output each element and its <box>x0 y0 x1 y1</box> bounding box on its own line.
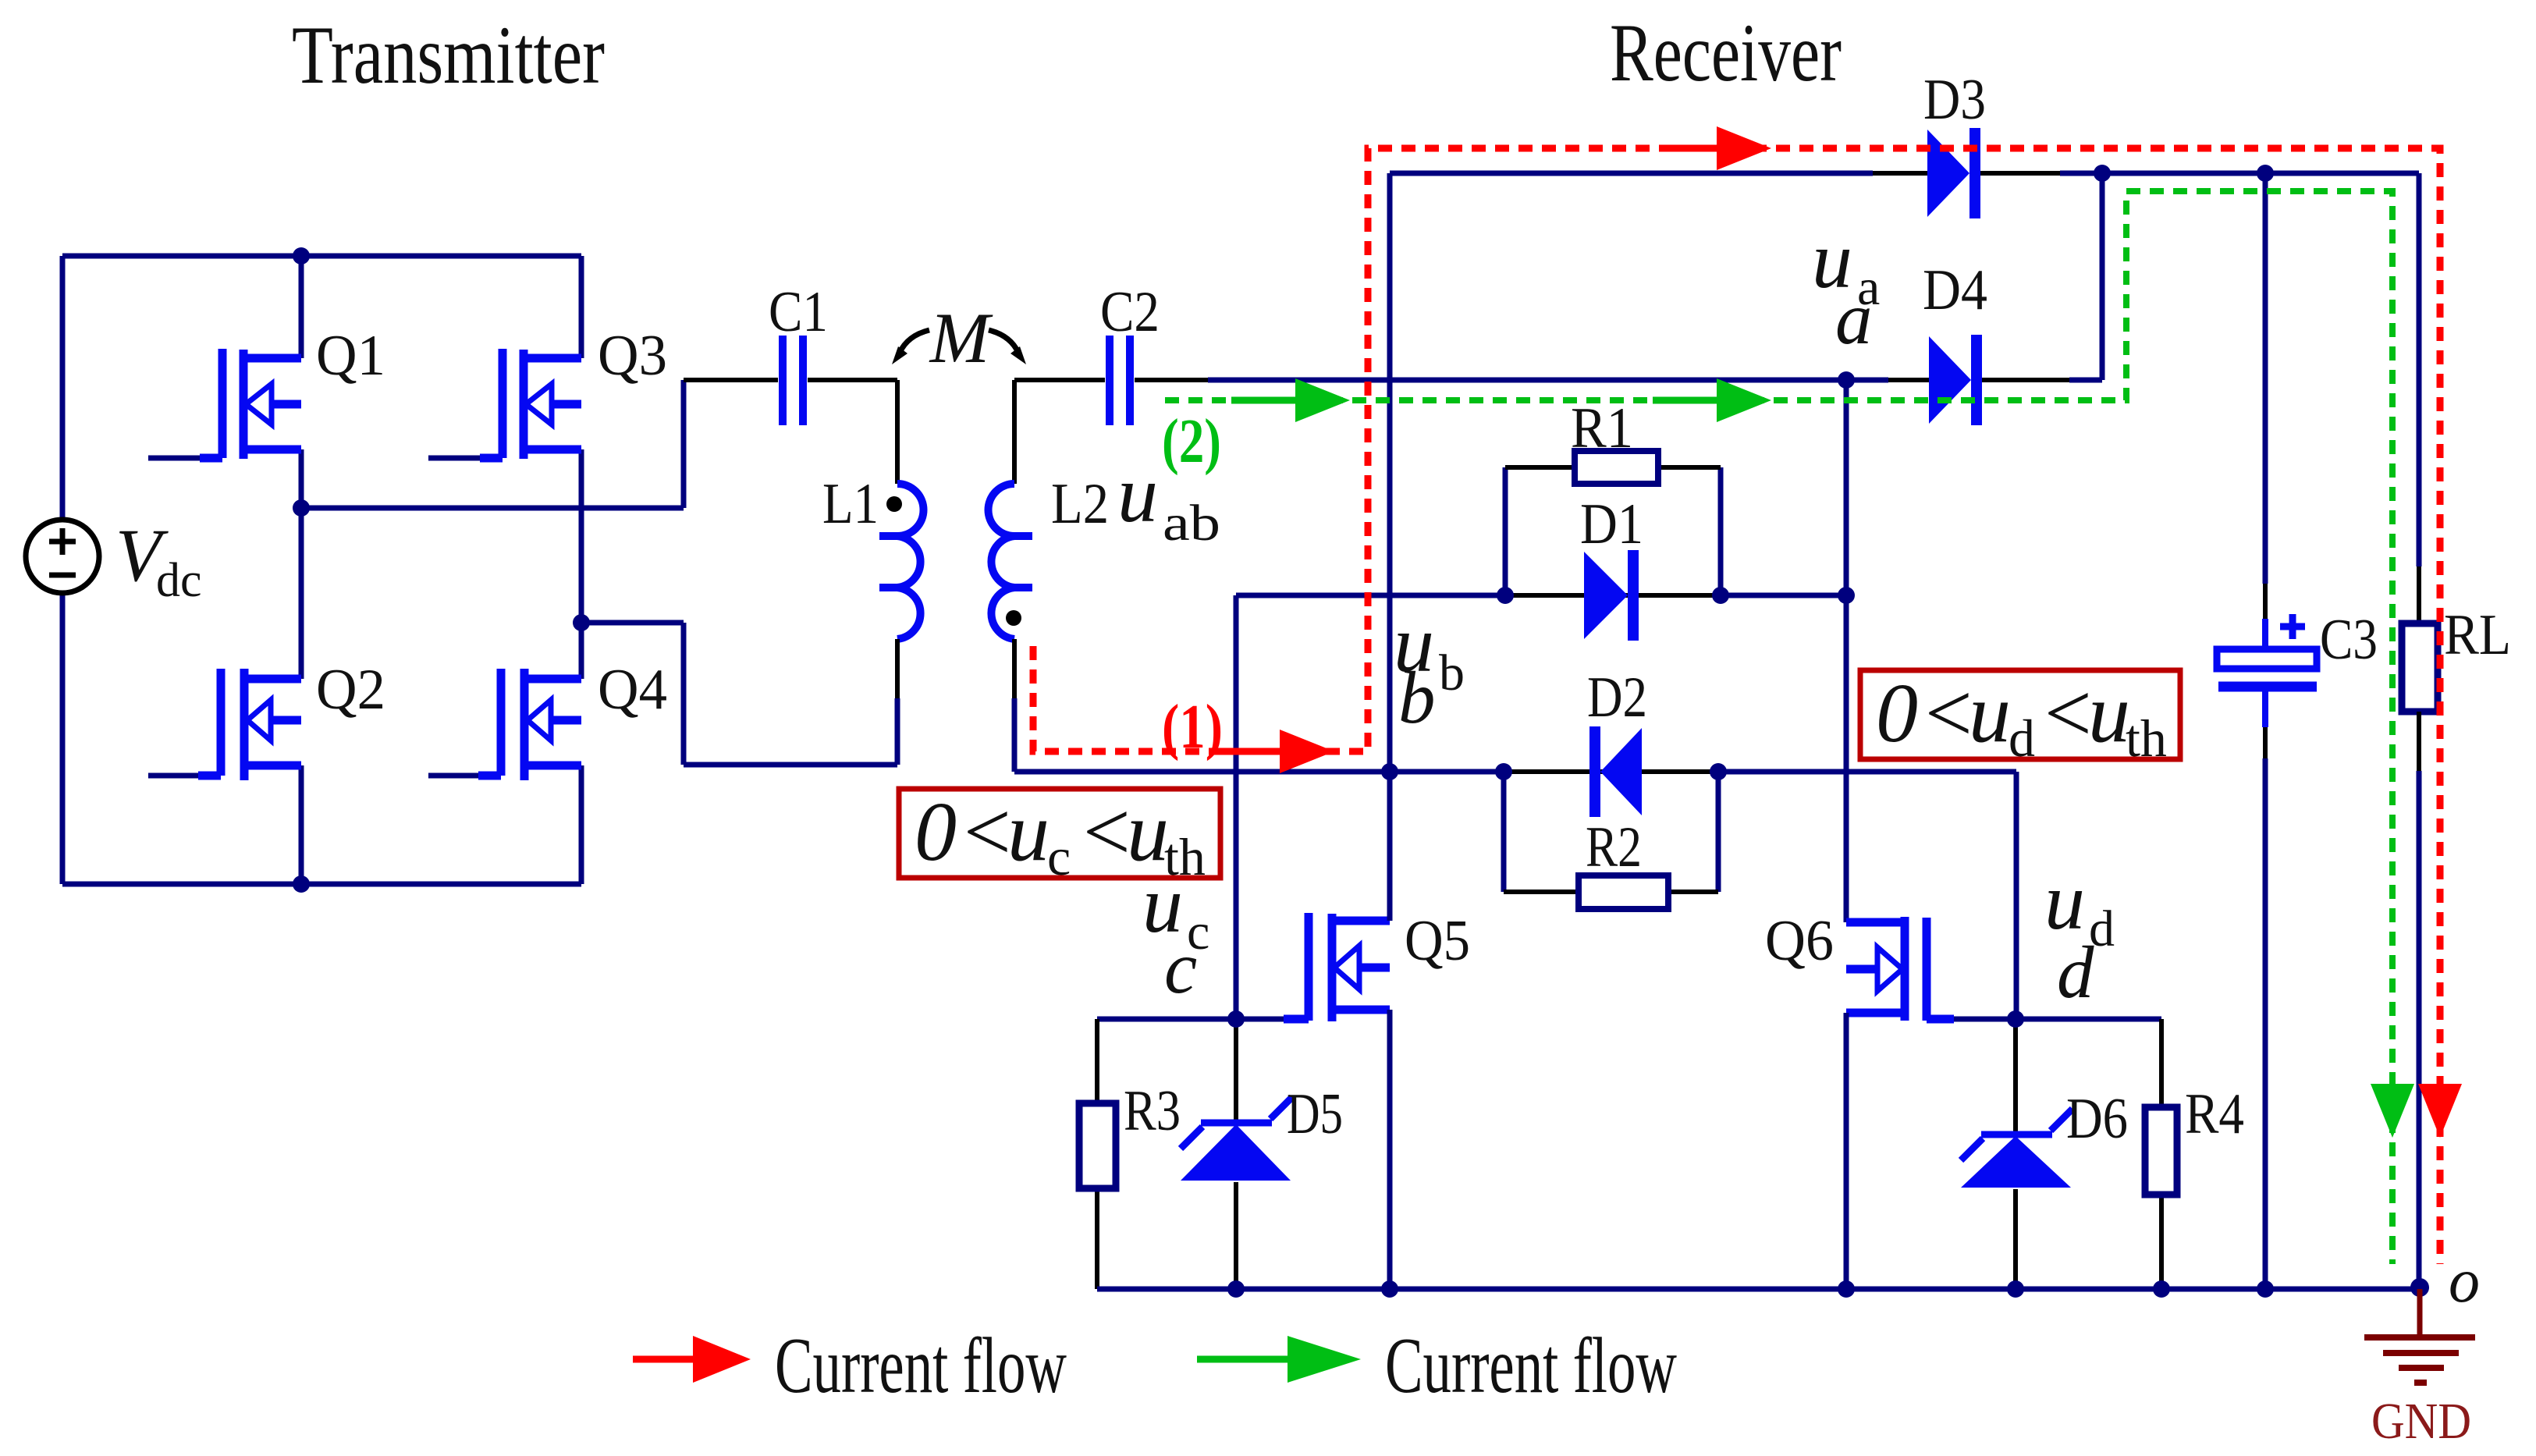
node: Q1-Q2 midpoint <box>293 499 310 517</box>
junction top line C3 branch <box>2257 165 2274 182</box>
red arrow on path 1 top <box>1660 145 1718 152</box>
svg-text:C1: C1 <box>769 280 828 344</box>
svg-text:D6: D6 <box>2066 1087 2128 1151</box>
svg-text:dc: dc <box>156 554 202 607</box>
red dashed current path 1 <box>1033 148 2440 1264</box>
resistor R2 <box>1579 875 1668 909</box>
node: top rail junction <box>293 247 310 265</box>
green arrow on path 2 down <box>2371 1084 2414 1138</box>
svg-text:L1: L1 <box>822 472 879 536</box>
svg-text:u: u <box>1117 449 1158 539</box>
wire: Q1-Q2 leg vertical <box>299 256 304 884</box>
condition box ud <box>1860 670 2180 759</box>
wire: receiver top line <box>1390 171 2419 176</box>
junction D2 right <box>1710 763 1727 780</box>
wire: R2 loop <box>1504 772 1718 892</box>
svg-text:D1: D1 <box>1580 492 1643 556</box>
svg-text:Q2: Q2 <box>316 658 385 722</box>
wire: L1 top lead <box>895 380 900 484</box>
wire: R1 loop <box>1505 467 1721 595</box>
svg-text:D4: D4 <box>1923 258 1987 322</box>
node a junction <box>1838 371 1855 389</box>
transistor Q6 <box>1846 917 1954 1021</box>
resistor RL <box>2402 623 2438 712</box>
svg-text:M: M <box>929 298 993 378</box>
transistor Q4 <box>478 669 581 780</box>
resistor R4 branch <box>2159 1019 2164 1289</box>
wire: b vertical (top line to node b) <box>1387 173 1393 772</box>
svg-text:Q5: Q5 <box>1405 909 1470 973</box>
wire: Q5 drain <box>1387 772 1393 921</box>
svg-text:Receiver: Receiver <box>1610 7 1842 98</box>
transistor Q1 <box>200 349 301 459</box>
svg-text:GND: GND <box>2371 1393 2471 1450</box>
node d junction <box>2007 1010 2024 1028</box>
wire: L2 to C2 <box>1014 378 1105 382</box>
svg-text:c: c <box>1164 926 1197 1009</box>
svg-text:RL: RL <box>2444 603 2511 667</box>
wire: C1 horizontal <box>684 378 897 382</box>
svg-text:D2: D2 <box>1587 666 1647 730</box>
svg-text:Transmitter: Transmitter <box>292 9 605 101</box>
wire: node a vertical <box>1844 380 1849 922</box>
junction rail Q6 source <box>1838 1280 1855 1298</box>
green dashed current path 2 <box>1165 191 2392 1264</box>
legend green arrow <box>1197 1356 1289 1363</box>
svg-text:0<u<u: 0<u<u <box>1876 667 2130 760</box>
wire: node d horizontal <box>1954 1017 2161 1022</box>
wire: D1 line (c to a) <box>1236 593 1846 598</box>
junction D2 left <box>1495 763 1512 780</box>
red arrow on path 1 down <box>2418 1084 2462 1138</box>
green arrow on path 2 first <box>1231 397 1297 404</box>
wire: RL vertical bottom <box>2417 712 2421 771</box>
junction rail R4 <box>2153 1280 2170 1298</box>
junction rail C3 <box>2257 1280 2274 1298</box>
junction rail D6 <box>2007 1280 2024 1298</box>
junction D1 line at node a vertical <box>1838 587 1855 604</box>
svg-text:D5: D5 <box>1287 1082 1343 1146</box>
svg-text:D3: D3 <box>1923 68 1986 132</box>
coupling arrow right <box>989 330 1018 353</box>
junction D1 right <box>1712 587 1729 604</box>
node c junction <box>1227 1010 1245 1028</box>
svg-text:ab: ab <box>1163 495 1220 552</box>
transistor Q2 <box>198 669 301 780</box>
wire: L2 top lead <box>1012 380 1017 484</box>
inductor L1 <box>897 484 924 639</box>
svg-text:b: b <box>1398 656 1436 739</box>
wire: receiver bottom rail <box>1097 1287 2420 1292</box>
wire: c vertical (D1 line to node c) <box>1234 595 1239 1019</box>
wire: L1 bottom lead <box>895 639 900 698</box>
svg-text:o: o <box>2449 1247 2480 1316</box>
wire: Q6 source <box>1844 1013 1849 1289</box>
wire: Q3-Q4 leg vertical <box>579 256 584 884</box>
node o junction <box>2410 1278 2429 1297</box>
resistor R1 <box>1575 451 1658 484</box>
wire: Q5 source <box>1387 1010 1393 1289</box>
resistor R3 branch <box>1095 1019 1099 1289</box>
diode D2 <box>1589 726 1600 817</box>
svg-text:Q4: Q4 <box>598 658 667 722</box>
coupling arrow left <box>900 330 929 353</box>
svg-text:Current flow: Current flow <box>1385 1322 1677 1410</box>
svg-text:C3: C3 <box>2320 608 2378 672</box>
wire: transmitter left vertical (Vdc branch) <box>60 256 66 884</box>
svg-text:a: a <box>1835 277 1873 360</box>
red arrow on path 1 lower <box>1216 748 1281 755</box>
condition box uc <box>899 789 1220 878</box>
green arrow on path 2 second <box>1653 397 1718 404</box>
capacitor C2 <box>1110 336 1130 425</box>
junction rail Q5 source <box>1381 1280 1398 1298</box>
svg-text:C2: C2 <box>1100 280 1160 344</box>
wire: midpoint1 to C1 level <box>301 380 684 508</box>
capacitor C3 <box>2217 649 2317 669</box>
node: bottom rail junction <box>293 875 310 893</box>
transistor Q3 <box>480 349 581 459</box>
svg-text:R1: R1 <box>1571 396 1633 460</box>
svg-text:Q6: Q6 <box>1765 909 1834 973</box>
diode D4 <box>1929 336 1971 424</box>
legend red arrow <box>633 1356 694 1363</box>
capacitor C1 <box>783 336 803 425</box>
voltage source Vdc <box>26 520 99 593</box>
svg-text:(2): (2) <box>1162 407 1221 476</box>
svg-text:b: b <box>1439 645 1465 701</box>
svg-text:L2: L2 <box>1051 472 1109 536</box>
wire: a-line from C2 to D4 <box>1135 378 1208 382</box>
svg-text:0<u<u: 0<u<u <box>915 786 1169 879</box>
junction D1 left <box>1497 587 1514 604</box>
wire: node b horizontal <box>1014 772 2016 1019</box>
svg-text:R3: R3 <box>1124 1079 1181 1143</box>
svg-text:d: d <box>2057 931 2094 1014</box>
wire: node c horizontal <box>1097 1017 1284 1022</box>
polarity dot L1 <box>886 496 902 512</box>
diode D1 <box>1584 552 1628 639</box>
polarity dot L2 <box>1006 610 1021 626</box>
zener diode D5 <box>1234 1019 1238 1289</box>
wire: transmitter top rail <box>62 254 581 259</box>
junction rail D5 <box>1227 1280 1245 1298</box>
svg-text:R4: R4 <box>2185 1082 2244 1146</box>
wire: midpoint2 to L1 bottom <box>581 623 897 765</box>
wire: RL vertical top <box>2417 173 2422 566</box>
wire: C3 vertical bottom <box>2262 691 2268 727</box>
svg-text:Q3: Q3 <box>598 324 667 388</box>
inductor L2 <box>989 484 1015 639</box>
svg-text:(1): (1) <box>1162 693 1223 762</box>
junction top line D4 branch <box>2094 165 2111 182</box>
svg-text:Q1: Q1 <box>316 324 385 388</box>
wire: C3 vertical top <box>2263 173 2268 584</box>
diode D3 <box>1927 130 1969 217</box>
node b junction <box>1381 763 1398 780</box>
node: Q3-Q4 midpoint <box>573 614 590 631</box>
wire: transmitter bottom rail <box>62 882 581 887</box>
svg-text:Current flow: Current flow <box>775 1322 1067 1410</box>
svg-text:R2: R2 <box>1586 815 1642 879</box>
wire: L2 bottom lead <box>1012 639 1017 698</box>
ground GND symbol <box>2417 1289 2423 1334</box>
transistor Q5 <box>1284 913 1390 1021</box>
zener diode D6 <box>2013 1019 2018 1289</box>
